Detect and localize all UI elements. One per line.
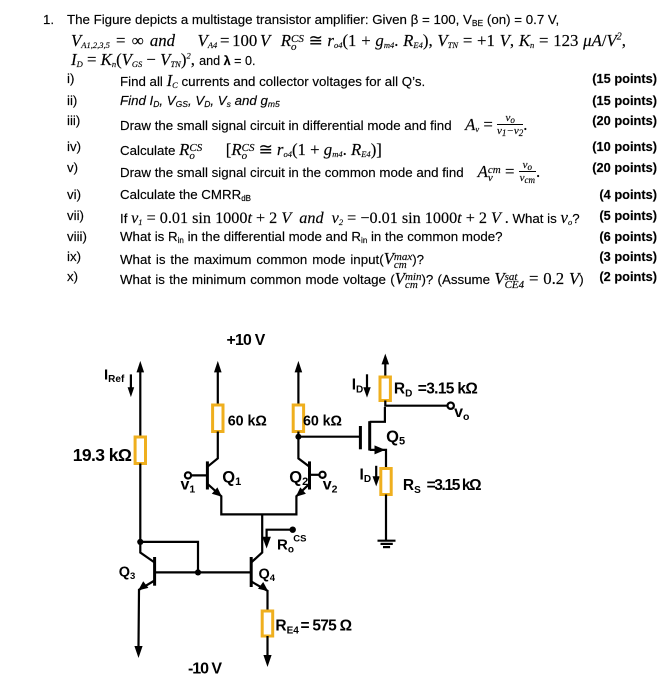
svg-text:v1: v1 (181, 477, 196, 496)
svg-text:=3.15 kΩ: =3.15 kΩ (427, 477, 482, 494)
svg-text:60 kΩ: 60 kΩ (228, 413, 267, 429)
resistor 60k right (293, 405, 303, 432)
svg-text:Q4: Q4 (259, 567, 276, 584)
wire emitter rail (221, 513, 296, 515)
mosfet Q5 (360, 407, 386, 469)
item ix (67, 249, 81, 264)
resistor RE4 (262, 611, 273, 636)
terminal vo (448, 403, 454, 409)
label Q4 (259, 567, 276, 584)
wire base rail Q3-Q4 (155, 571, 252, 573)
svg-text:RE4: RE4 (275, 618, 299, 637)
item vii (67, 208, 84, 223)
item viii (67, 229, 87, 244)
label Q1 (222, 468, 241, 488)
wire supply arrow left branch (137, 361, 145, 437)
label ID top (352, 377, 364, 396)
resistor 19.3k (135, 437, 145, 464)
terminal v1 (185, 472, 208, 478)
label Q5 (386, 428, 405, 448)
svg-text:ID: ID (352, 377, 364, 396)
probe Ro CS arrow (262, 527, 296, 549)
svg-text:= 575 Ω: = 575 Ω (301, 618, 353, 635)
svg-text:vo: vo (454, 404, 469, 423)
svg-text:-10 V: -10 V (188, 660, 222, 677)
wire mirror loop (140, 542, 198, 573)
node dot 60k right bottom (295, 434, 301, 440)
item ii (67, 93, 77, 108)
label IRef (104, 366, 125, 385)
wire supply arrow branch 60k right (295, 361, 303, 405)
transistor Q3 (138, 557, 154, 646)
svg-text:v2: v2 (323, 477, 338, 496)
svg-text:Ro: Ro (277, 537, 294, 556)
terminal v2 (310, 472, 326, 478)
transistor Q1 (207, 432, 222, 516)
wire drain node to vo (385, 401, 447, 406)
svg-text:Q1: Q1 (222, 468, 241, 488)
wire gate Q5 (298, 436, 360, 438)
wire left branch to Q3 (140, 464, 154, 563)
svg-text:CS: CS (293, 533, 306, 544)
label Q2 (289, 468, 308, 488)
wire tail to Q4 collector (251, 514, 262, 562)
label v2 (323, 477, 338, 496)
item vi (67, 187, 81, 202)
wire RS to ground (385, 495, 387, 541)
svg-text:=3.15 kΩ: =3.15 kΩ (418, 381, 478, 398)
item iii (67, 113, 80, 128)
label v1 (181, 477, 196, 496)
resistor RS (381, 469, 391, 495)
item v (67, 160, 78, 175)
svg-text:ID: ID (360, 466, 372, 485)
transistor Q2 (296, 432, 310, 516)
label Ro CS (277, 533, 307, 555)
arrow IRef current (128, 374, 135, 397)
arrow ID bottom (373, 466, 380, 487)
node dot left wire (137, 539, 143, 545)
label RS = 3.15 kOhm (403, 477, 482, 496)
label -10 V (188, 660, 222, 677)
wire supply arrow branch 60k left (214, 361, 222, 405)
label 60 kOhm right (303, 413, 342, 429)
item iv (67, 139, 81, 154)
resistor 60k left (213, 405, 223, 432)
header line 2 (71, 30, 626, 51)
label ID bottom (360, 466, 372, 485)
label Q3 (119, 565, 136, 582)
header line 1 (43, 12, 54, 27)
resistor RD (380, 377, 390, 401)
node dot base rail (195, 569, 201, 575)
svg-text:Q5: Q5 (386, 428, 405, 448)
label RE4 = 575 Ohm (275, 618, 352, 637)
label 60 kOhm left (228, 413, 267, 429)
svg-text:19.3 kΩ: 19.3 kΩ (73, 445, 132, 465)
label vo (454, 404, 469, 423)
svg-text:Q2: Q2 (289, 468, 308, 488)
svg-text:RS: RS (403, 477, 421, 496)
arrow ID top (363, 374, 370, 397)
svg-text:+10 V: +10 V (227, 332, 266, 349)
svg-text:RD: RD (394, 381, 412, 400)
transistor Q4 (251, 557, 268, 611)
svg-text:Q3: Q3 (119, 565, 136, 582)
header line 3 (71, 50, 255, 70)
svg-text:IRef: IRef (104, 366, 125, 385)
label 19.3 kOhm (73, 445, 132, 465)
wire RE4 to -10V arrow (263, 636, 271, 667)
item i (67, 71, 74, 86)
wire supply arrow RD branch (382, 354, 390, 378)
label +10 V (227, 332, 266, 349)
ground (378, 541, 396, 547)
svg-text:60 kΩ: 60 kΩ (303, 413, 342, 429)
label RD = 3.15 kOhm (394, 381, 478, 400)
item x (67, 269, 78, 284)
arrow Q3 emitter to -10V (134, 646, 142, 658)
